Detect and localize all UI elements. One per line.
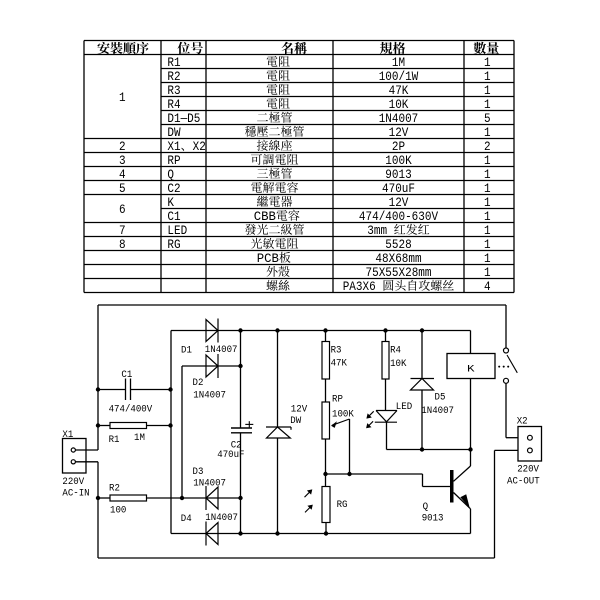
svg-text:4: 4	[484, 280, 491, 294]
svg-text:R2: R2	[109, 482, 120, 494]
svg-text:K: K	[467, 363, 475, 375]
svg-text:100K: 100K	[332, 408, 355, 420]
svg-text:Q: Q	[423, 501, 429, 513]
svg-text:100: 100	[110, 504, 126, 516]
svg-text:470uF: 470uF	[382, 182, 415, 196]
svg-text:R1: R1	[109, 434, 120, 446]
svg-text:R4: R4	[390, 345, 401, 357]
svg-text:X1: X1	[167, 140, 180, 154]
svg-text:PCB: PCB	[257, 252, 280, 266]
svg-text:AC-IN: AC-IN	[62, 488, 89, 500]
svg-text:D2: D2	[193, 377, 204, 389]
svg-text:D5: D5	[435, 391, 446, 403]
svg-text:RP: RP	[332, 393, 343, 405]
svg-text:D3: D3	[193, 466, 204, 478]
svg-text:R4: R4	[167, 98, 180, 112]
svg-text:470uF: 470uF	[217, 449, 244, 461]
svg-text:10K: 10K	[389, 98, 409, 112]
svg-text:RP: RP	[167, 154, 180, 168]
svg-text:5: 5	[484, 112, 491, 126]
svg-text:R3: R3	[331, 345, 342, 357]
svg-text:12V: 12V	[291, 403, 308, 415]
svg-text:1: 1	[484, 56, 491, 70]
svg-text:3: 3	[119, 154, 126, 168]
svg-text:220V: 220V	[62, 476, 85, 488]
svg-text:1: 1	[484, 168, 491, 182]
svg-text:RG: RG	[337, 499, 348, 511]
svg-text:Q: Q	[167, 168, 174, 182]
svg-text:RG: RG	[167, 238, 180, 252]
svg-text:1: 1	[119, 91, 126, 105]
svg-text:C2: C2	[167, 182, 180, 196]
svg-text:474/400-630V: 474/400-630V	[359, 210, 439, 224]
svg-text:CBB: CBB	[254, 210, 277, 224]
svg-text:5: 5	[119, 182, 126, 196]
svg-text:8: 8	[119, 238, 126, 252]
svg-text:12V: 12V	[389, 196, 409, 210]
svg-text:2: 2	[484, 140, 491, 154]
svg-text:LED: LED	[167, 224, 187, 238]
svg-text:AC-OUT: AC-OUT	[507, 476, 540, 488]
svg-text:1: 1	[484, 266, 491, 280]
svg-text:DW: DW	[167, 126, 181, 140]
svg-text:1: 1	[484, 98, 491, 112]
svg-text:1: 1	[484, 70, 491, 84]
svg-text:5528: 5528	[385, 238, 411, 252]
svg-text:D4: D4	[181, 513, 192, 525]
svg-text:1: 1	[484, 196, 491, 210]
svg-text:C1: C1	[167, 210, 180, 224]
svg-text:1N4007: 1N4007	[193, 477, 226, 489]
svg-text:48X68mm: 48X68mm	[375, 252, 421, 266]
svg-text:7: 7	[119, 224, 126, 238]
svg-text:1: 1	[484, 182, 491, 196]
svg-text:1N4007: 1N4007	[421, 405, 454, 417]
svg-text:3mm: 3mm	[367, 224, 393, 238]
svg-text:100K: 100K	[385, 154, 412, 168]
svg-text:DW: DW	[290, 415, 302, 427]
svg-text:47K: 47K	[389, 84, 409, 98]
svg-text:1: 1	[484, 224, 491, 238]
svg-text:12V: 12V	[389, 126, 409, 140]
svg-text:K: K	[167, 196, 174, 210]
svg-text:1: 1	[484, 252, 491, 266]
svg-text:10K: 10K	[390, 358, 407, 370]
svg-text:474/400V: 474/400V	[109, 404, 153, 416]
svg-text:1N4007: 1N4007	[205, 344, 238, 356]
svg-text:1: 1	[484, 210, 491, 224]
svg-text:1: 1	[484, 154, 491, 168]
svg-text:220V: 220V	[517, 464, 540, 476]
svg-text:9013: 9013	[422, 513, 444, 525]
svg-text:47K: 47K	[331, 357, 348, 369]
svg-text:1N4007: 1N4007	[205, 512, 238, 524]
svg-text:R1: R1	[167, 56, 180, 70]
svg-text:6: 6	[119, 203, 126, 217]
svg-text:1N4007: 1N4007	[379, 112, 419, 126]
svg-text:X1: X1	[62, 429, 73, 441]
svg-text:PA3X6: PA3X6	[343, 280, 383, 294]
svg-text:1M: 1M	[134, 432, 145, 444]
svg-text:2: 2	[119, 140, 126, 154]
svg-text:1: 1	[484, 84, 491, 98]
svg-text:LED: LED	[396, 401, 412, 413]
svg-text:100/1W: 100/1W	[379, 70, 419, 84]
svg-text:4: 4	[119, 168, 126, 182]
svg-text:1N4007: 1N4007	[193, 390, 226, 402]
svg-text:D1: D1	[181, 345, 192, 357]
svg-text:X2: X2	[517, 416, 528, 428]
svg-text:D1—D5: D1—D5	[167, 112, 200, 126]
svg-text:9013: 9013	[385, 168, 411, 182]
svg-text:75X55X28mm: 75X55X28mm	[366, 266, 432, 280]
svg-text:1: 1	[484, 238, 491, 252]
svg-text:X2: X2	[193, 140, 206, 154]
svg-text:R3: R3	[167, 84, 180, 98]
svg-text:R2: R2	[167, 70, 180, 84]
svg-text:1: 1	[484, 126, 491, 140]
svg-text:1M: 1M	[392, 56, 405, 70]
svg-text:C1: C1	[121, 369, 132, 381]
svg-text:2P: 2P	[392, 140, 405, 154]
